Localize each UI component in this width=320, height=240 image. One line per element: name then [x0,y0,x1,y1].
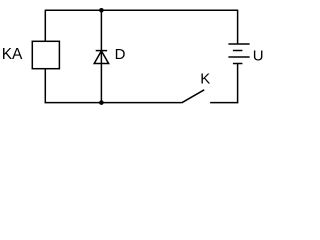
wire diode branch vertical [100,10,102,102]
diode D cathode bar [96,50,107,52]
svg-text:U: U [253,48,264,65]
node junction dot bottom [99,100,104,105]
svg-text:KA: KA [2,46,23,63]
svg-text:D: D [115,46,126,63]
wire top rail [45,9,239,11]
wire left rail lower (coil to bottom rail) [44,69,46,104]
wire bottom rail left segment (to switch pivot) [45,102,182,104]
node junction dot top [99,8,104,13]
relay coil KA [32,41,59,68]
diode D triangle (anode, pointing up) [94,51,108,64]
battery U bottom stub [237,64,239,104]
battery U plate long bottom [228,56,249,58]
wire left rail upper (top rail to coil) [44,10,46,41]
wire bottom rail right segment (switch to battery) [210,102,238,104]
switch K lever [182,90,205,103]
battery U top stub [237,10,239,44]
battery U plate short [233,50,243,52]
svg-text:K: K [200,70,210,87]
battery U plate short bottom [233,63,243,65]
battery U plate long top [228,43,249,45]
